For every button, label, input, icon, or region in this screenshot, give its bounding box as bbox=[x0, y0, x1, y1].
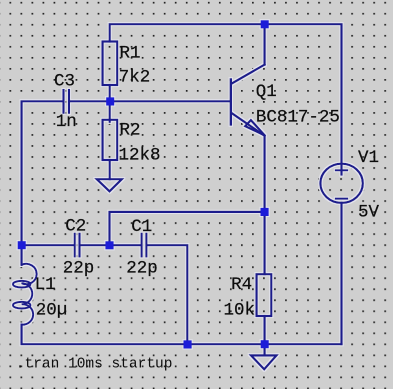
wire C3 left lead bbox=[22, 101, 62, 264]
capacitor C2 bbox=[22, 244, 73, 246]
svg-text:R4: R4 bbox=[231, 275, 252, 295]
resistor R1 bbox=[103, 42, 118, 86]
svg-text:R1: R1 bbox=[120, 44, 141, 64]
node n6 bbox=[261, 340, 269, 348]
svg-text:BC817-25: BC817-25 bbox=[256, 108, 340, 128]
wire base net bbox=[70, 100, 231, 102]
svg-text:20µ: 20µ bbox=[36, 300, 68, 320]
svg-text:5V: 5V bbox=[358, 203, 380, 223]
resistor R2 bbox=[109, 101, 111, 122]
svg-text:V1: V1 bbox=[358, 148, 379, 168]
node n4 bbox=[261, 208, 269, 216]
wire C1 right to bottom bbox=[148, 245, 187, 344]
wire top rail bbox=[110, 24, 342, 174]
ground below R2 bbox=[97, 179, 122, 191]
svg-text:C3: C3 bbox=[54, 72, 75, 92]
svg-text:.tran 10ms startup: .tran 10ms startup bbox=[16, 356, 173, 372]
svg-text:Q1: Q1 bbox=[256, 82, 277, 102]
wire emitter down bbox=[264, 136, 266, 274]
svg-text:C2: C2 bbox=[65, 217, 86, 237]
capacitor C3 bbox=[64, 90, 70, 113]
node n2 bbox=[18, 241, 26, 249]
node n0 bbox=[261, 20, 269, 28]
wire bottom rail bbox=[22, 325, 342, 345]
svg-text:22p: 22p bbox=[63, 259, 95, 279]
node n1 bbox=[106, 97, 114, 105]
inductor L1 bbox=[13, 264, 37, 325]
voltage source V1 bbox=[320, 164, 362, 203]
wire R1 bottom lead bbox=[109, 85, 111, 101]
svg-text:10k: 10k bbox=[224, 301, 256, 321]
svg-text:1n: 1n bbox=[56, 112, 77, 132]
node n3 bbox=[105, 241, 113, 249]
ground bottom bbox=[264, 344, 266, 355]
wire mid link bbox=[110, 212, 265, 245]
svg-text:7k2: 7k2 bbox=[119, 68, 151, 88]
svg-text:12k8: 12k8 bbox=[119, 145, 161, 165]
resistor R4 bbox=[257, 274, 272, 316]
svg-text:R2: R2 bbox=[120, 121, 141, 141]
svg-text:22p: 22p bbox=[126, 259, 158, 279]
transistor Q1 bbox=[230, 79, 232, 124]
svg-text:L1: L1 bbox=[35, 275, 56, 295]
capacitor C1 bbox=[110, 244, 141, 246]
svg-text:C1: C1 bbox=[131, 217, 152, 237]
node n5 bbox=[184, 340, 192, 348]
